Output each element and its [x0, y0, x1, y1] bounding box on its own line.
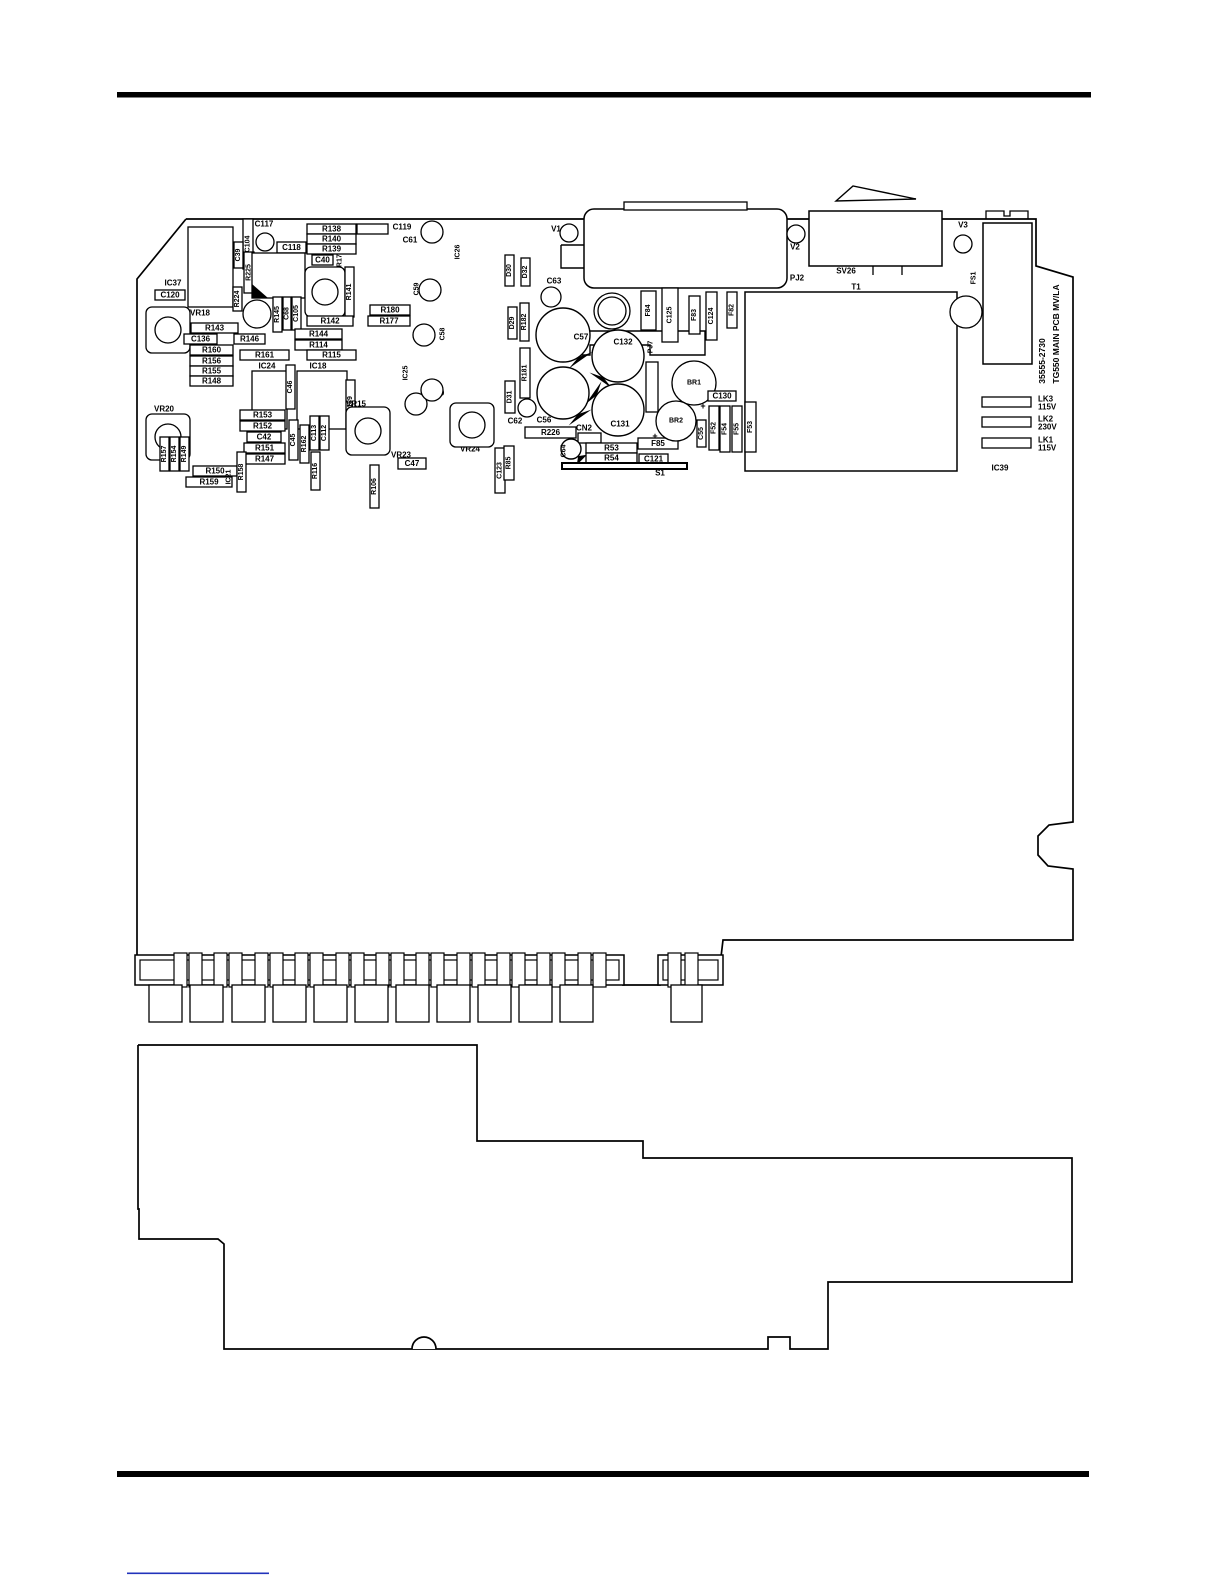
connector tab 3	[232, 985, 265, 1022]
connector pin pair 3	[255, 953, 283, 987]
svg-text:C117: C117	[255, 220, 274, 229]
IC IC18 body	[297, 371, 347, 429]
svg-text:C42: C42	[257, 433, 272, 442]
svg-text:R116: R116	[312, 463, 319, 479]
pad V3	[954, 235, 972, 253]
svg-text:R150: R150	[205, 467, 225, 476]
top rule	[117, 92, 1091, 98]
C136	[184, 334, 217, 344]
svg-text:C64: C64	[561, 444, 568, 457]
svg-text:R162: R162	[301, 436, 308, 453]
svg-text:F83: F83	[691, 309, 698, 321]
svg-text:D29: D29	[509, 316, 516, 329]
svg-text:R142: R142	[320, 317, 340, 326]
svg-text:T1: T1	[851, 283, 861, 292]
capacitor C117 pad	[256, 233, 274, 251]
R141	[345, 267, 354, 317]
svg-text:PJ7: PJ7	[648, 341, 655, 354]
R157	[160, 437, 169, 471]
connector tab SV1	[671, 985, 702, 1022]
svg-text:SV26: SV26	[836, 267, 856, 276]
svg-text:R148: R148	[202, 377, 222, 386]
CN2 body	[578, 433, 601, 443]
svg-text:C58: C58	[440, 327, 447, 340]
svg-text:IC26: IC26	[455, 245, 462, 260]
svg-text:C130: C130	[712, 392, 732, 401]
F55	[732, 406, 742, 452]
svg-text:R181: R181	[522, 365, 529, 382]
R225	[244, 252, 254, 293]
pad V2	[787, 225, 805, 243]
svg-text:FS1: FS1	[971, 271, 978, 284]
R114	[295, 340, 342, 350]
svg-text:VR20: VR20	[154, 405, 175, 414]
svg-text:IC24: IC24	[259, 362, 276, 371]
R159	[186, 477, 232, 487]
svg-text:C59: C59	[414, 282, 421, 295]
svg-text:+: +	[652, 431, 657, 441]
svg-text:F55: F55	[734, 423, 741, 435]
svg-text:R158: R158	[238, 464, 245, 481]
svg-text:R146: R146	[240, 335, 260, 344]
C120	[155, 290, 185, 300]
svg-text:C112: C112	[321, 425, 328, 441]
svg-text:D32: D32	[522, 265, 529, 278]
link LK3	[982, 397, 1031, 407]
connector pin pair 7	[416, 953, 444, 987]
capacitor C60	[405, 393, 427, 415]
lower board bottom notch	[412, 1337, 436, 1349]
connector tab 5	[314, 985, 347, 1022]
capacitor ring	[594, 293, 630, 329]
svg-text:F53: F53	[747, 421, 754, 433]
R145	[273, 297, 282, 332]
capacitor C131	[586, 381, 645, 436]
svg-text:IC37: IC37	[165, 279, 182, 288]
bottom connector band right outer	[658, 955, 723, 985]
R152	[240, 421, 285, 431]
svg-text:R182: R182	[521, 314, 528, 331]
C40	[312, 255, 333, 265]
R226	[525, 427, 576, 438]
svg-text:IC25: IC25	[403, 366, 410, 381]
svg-text:V3: V3	[958, 221, 968, 230]
svg-text:R140: R140	[322, 235, 342, 244]
svg-text:230V: 230V	[1038, 423, 1057, 432]
svg-text:C61: C61	[403, 236, 418, 245]
svg-text:C63: C63	[547, 277, 562, 286]
connector PJ2 body	[584, 209, 787, 288]
svg-text:R156: R156	[202, 357, 222, 366]
R140	[307, 234, 356, 244]
R180	[370, 305, 410, 315]
capacitor C64	[561, 439, 587, 465]
svg-text:S1: S1	[655, 469, 665, 478]
svg-text:D30: D30	[506, 264, 513, 277]
R151	[244, 443, 285, 453]
trimmer VR18	[146, 307, 190, 353]
svg-text:F84: F84	[645, 304, 652, 316]
svg-text:C125: C125	[667, 307, 674, 324]
trimmer VR20	[146, 414, 190, 460]
pad C60 top	[421, 379, 443, 401]
svg-text:R85: R85	[506, 456, 513, 469]
R156	[190, 356, 233, 366]
svg-text:D31: D31	[507, 390, 514, 403]
capacitor C58	[413, 324, 435, 346]
C121	[639, 454, 668, 464]
connector pin pair 5	[336, 953, 364, 987]
svg-text:PJ2: PJ2	[790, 274, 805, 283]
svg-text:R180: R180	[380, 306, 400, 315]
connector pin pair SV1	[668, 953, 698, 987]
svg-text:R160: R160	[202, 346, 222, 355]
D30	[505, 255, 514, 286]
R160	[190, 345, 233, 355]
svg-text:C124: C124	[708, 308, 715, 325]
svg-text:F52: F52	[711, 422, 718, 434]
S1 slide bar	[562, 463, 687, 469]
IC25 heatsink block	[561, 331, 705, 355]
svg-text:R138: R138	[322, 225, 342, 234]
pad C61 top	[421, 221, 443, 243]
svg-text:C118: C118	[282, 243, 301, 252]
R154	[170, 437, 179, 471]
connector pin pair 6	[376, 953, 404, 987]
svg-text:R144: R144	[309, 330, 329, 339]
svg-text:C45: C45	[290, 433, 297, 446]
main board outline	[137, 219, 1073, 985]
C68	[283, 297, 291, 330]
R148	[190, 376, 233, 386]
connector tab 9	[478, 985, 511, 1022]
capacitor C62	[518, 399, 536, 417]
wedge IC20	[252, 284, 268, 298]
svg-text:R177: R177	[379, 317, 399, 326]
connector pin pair 8	[457, 953, 485, 987]
svg-text:+: +	[700, 401, 705, 411]
D29	[508, 307, 517, 339]
link LK1	[982, 438, 1031, 448]
svg-text:R152: R152	[253, 422, 273, 431]
R144	[295, 329, 342, 339]
svg-text:R139: R139	[322, 245, 342, 254]
svg-text:R149: R149	[181, 446, 188, 463]
svg-text:VR18: VR18	[190, 309, 211, 318]
F54	[720, 406, 730, 452]
pad V1	[560, 224, 578, 242]
C104	[243, 219, 253, 269]
svg-text:R161: R161	[255, 351, 275, 360]
D32	[521, 258, 530, 286]
C130	[708, 391, 736, 401]
svg-text:C123: C123	[497, 462, 504, 479]
connector PJ2 tab	[624, 202, 747, 210]
trimmer VR24	[450, 403, 494, 447]
connector pin pair 4	[295, 953, 323, 987]
svg-text:F82: F82	[729, 304, 736, 316]
svg-text:V2: V2	[790, 243, 800, 252]
svg-text:R106: R106	[371, 478, 378, 495]
connector tab 11	[560, 985, 593, 1022]
connector tab 7	[396, 985, 429, 1022]
R150	[193, 466, 237, 476]
trimmer VR15	[346, 407, 390, 455]
C124	[706, 292, 717, 340]
connector tab 2	[190, 985, 223, 1022]
bridge BR2	[656, 401, 696, 441]
pad near T1	[950, 296, 982, 328]
R85	[504, 446, 514, 480]
svg-text:C131: C131	[610, 420, 630, 429]
svg-text:C104: C104	[245, 236, 252, 253]
footer blue link line	[127, 1573, 269, 1575]
connector pin pair 1	[174, 953, 202, 987]
switch SW26 body	[809, 211, 942, 266]
transformer T1 body	[745, 292, 957, 471]
C123	[495, 448, 505, 493]
R146	[234, 334, 265, 344]
C105	[292, 297, 301, 330]
svg-text:R224: R224	[234, 291, 241, 308]
svg-text:C40: C40	[315, 256, 330, 265]
C112	[320, 416, 329, 450]
trimmer VR17	[305, 267, 345, 317]
bridge BR1	[672, 361, 716, 405]
svg-text:C47: C47	[405, 459, 420, 468]
capacitor C59	[419, 279, 441, 301]
svg-text:C105: C105	[293, 305, 300, 322]
F52	[709, 406, 719, 450]
bottom connector band outer	[135, 955, 624, 985]
R142	[307, 316, 353, 326]
R158	[237, 452, 246, 492]
C47	[398, 458, 426, 469]
R189	[346, 380, 355, 429]
svg-text:C113: C113	[311, 425, 318, 441]
bottom connector band right inner	[663, 960, 718, 980]
R149	[180, 437, 189, 471]
C42	[247, 432, 281, 442]
R116	[311, 452, 320, 490]
C55	[697, 420, 706, 447]
svg-text:C57: C57	[574, 333, 589, 342]
connector tab 10	[519, 985, 552, 1022]
svg-text:R53: R53	[604, 444, 619, 453]
connector tab 8	[437, 985, 470, 1022]
capacitor C132	[589, 330, 644, 389]
C125	[662, 288, 678, 342]
connector pin pair 10	[537, 953, 565, 987]
svg-text:35555-2730: 35555-2730	[1037, 338, 1047, 384]
link LK2	[982, 417, 1031, 427]
F53	[745, 402, 756, 452]
svg-text:C120: C120	[160, 291, 180, 300]
IC IC20 body	[252, 253, 305, 298]
svg-text:R115: R115	[322, 351, 341, 360]
R147	[244, 454, 285, 464]
PJ7 body	[646, 362, 658, 412]
svg-text:115V: 115V	[1038, 403, 1057, 412]
R138	[307, 224, 356, 234]
R139	[307, 244, 356, 254]
F83	[689, 296, 700, 334]
R224	[233, 287, 242, 311]
fuse FS1 body	[983, 223, 1032, 364]
svg-text:R157: R157	[161, 446, 168, 463]
C39	[234, 242, 243, 268]
capacitor C56	[537, 367, 592, 426]
R143	[191, 323, 238, 333]
C45	[289, 420, 298, 460]
svg-text:IC21: IC21	[226, 470, 233, 485]
connector tab 4	[273, 985, 306, 1022]
svg-text:R159: R159	[199, 478, 219, 487]
svg-text:C56: C56	[537, 416, 552, 425]
R115	[307, 350, 356, 360]
C118	[277, 242, 306, 253]
R155	[190, 366, 233, 376]
IC26 heatsink block	[561, 245, 705, 268]
svg-text:R226: R226	[541, 428, 561, 437]
connector pin pair 11	[578, 953, 606, 987]
svg-text:115V: 115V	[1038, 444, 1057, 453]
svg-text:R154: R154	[171, 446, 178, 463]
svg-text:R114: R114	[309, 341, 328, 350]
svg-text:C136: C136	[191, 335, 211, 344]
capacitor C57	[536, 308, 592, 369]
svg-text:C55: C55	[698, 427, 705, 440]
svg-text:TG550 MAIN PCB MV/LA: TG550 MAIN PCB MV/LA	[1051, 284, 1061, 383]
R161	[240, 350, 289, 360]
FS1 top tabs	[986, 211, 1028, 219]
pad near VR18	[243, 300, 271, 328]
C113	[310, 416, 319, 450]
F85	[638, 438, 678, 449]
bottom rule	[117, 1471, 1089, 1477]
R54	[586, 453, 637, 463]
svg-text:F54: F54	[722, 423, 729, 435]
IC IC37 body	[188, 227, 233, 307]
capacitor C63	[541, 287, 561, 307]
R162	[300, 425, 309, 463]
D31	[505, 381, 515, 413]
svg-text:R153: R153	[253, 411, 273, 420]
R53	[586, 443, 637, 453]
svg-text:R145: R145	[274, 306, 281, 323]
svg-text:R155: R155	[202, 367, 222, 376]
svg-text:BR2: BR2	[669, 418, 683, 425]
IC IC24 body	[252, 371, 287, 429]
bottom connector band inner	[140, 960, 619, 980]
connector pin pair 2	[214, 953, 242, 987]
svg-text:C119: C119	[393, 223, 412, 232]
R106	[370, 465, 379, 508]
svg-text:BR1: BR1	[687, 380, 701, 387]
svg-text:C62: C62	[508, 417, 523, 426]
connector tab 6	[355, 985, 388, 1022]
connector pin pair 9	[497, 953, 525, 987]
svg-text:C46: C46	[287, 380, 294, 393]
connector tab 1	[149, 985, 182, 1022]
svg-text:IC18: IC18	[310, 362, 327, 371]
C119 body	[357, 224, 388, 234]
SW26 legs	[873, 266, 902, 275]
C46	[286, 365, 295, 409]
svg-text:IC39: IC39	[992, 464, 1009, 473]
svg-text:R54: R54	[604, 454, 619, 463]
R181	[520, 348, 530, 398]
SW26 toggle lever	[836, 186, 916, 201]
svg-text:C132: C132	[613, 338, 633, 347]
F84	[641, 291, 656, 330]
svg-text:CN2: CN2	[576, 424, 593, 433]
svg-text:C68: C68	[284, 307, 291, 320]
lower board outline	[138, 1045, 1072, 1349]
R153	[240, 410, 285, 420]
svg-text:R151: R151	[255, 444, 275, 453]
R182	[520, 303, 529, 341]
svg-text:R141: R141	[346, 284, 353, 301]
svg-text:R143: R143	[205, 324, 225, 333]
svg-text:C39: C39	[235, 248, 242, 261]
F82	[727, 292, 737, 328]
R177	[368, 316, 410, 326]
svg-text:R147: R147	[255, 455, 275, 464]
